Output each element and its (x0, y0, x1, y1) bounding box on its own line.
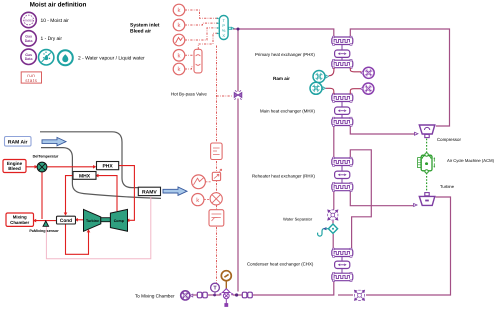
svg-text:Ram air: Ram air (273, 76, 290, 81)
svg-text:1 - Dry air: 1 - Dry air (41, 36, 63, 42)
svg-text:Compressor: Compressor (437, 137, 461, 142)
svg-text:Condenser heat exchanger (CHX): Condenser heat exchanger (CHX) (247, 261, 314, 266)
svg-text:MHX: MHX (79, 174, 91, 180)
svg-text:Bleed air: Bleed air (130, 29, 151, 35)
svg-text:Bleed: Bleed (8, 166, 21, 171)
svg-text:Comp: Comp (114, 219, 125, 223)
svg-text:Air Cycle Machine (ACM): Air Cycle Machine (ACM) (447, 158, 495, 163)
svg-text:Turbine: Turbine (440, 184, 455, 189)
svg-text:To Mixing Chamber: To Mixing Chamber (135, 293, 175, 298)
svg-text:DelTemperatur: DelTemperatur (33, 154, 59, 158)
svg-text:Data: Data (25, 39, 34, 43)
svg-text:PHX: PHX (102, 164, 113, 170)
svg-text:Hot By-pass Valve: Hot By-pass Valve (171, 91, 207, 96)
svg-text:Main heat exchanger (MHX): Main heat exchanger (MHX) (260, 108, 315, 113)
svg-text:Moist air definition: Moist air definition (30, 2, 87, 9)
svg-text:RAM Air: RAM Air (8, 140, 28, 146)
svg-text:moist: moist (25, 19, 33, 23)
svg-text:2 - Water vapour / Liquid wat: 2 - Water vapour / Liquid water (78, 55, 145, 61)
svg-text:X: X (222, 33, 225, 38)
svg-text:Mixing: Mixing (13, 215, 27, 220)
svg-text:Cond: Cond (60, 218, 72, 224)
svg-text:Data: Data (25, 57, 34, 61)
svg-text:stats: stats (25, 78, 37, 83)
svg-text:Reheater heat exchanger (RHX): Reheater heat exchanger (RHX) (252, 174, 316, 179)
svg-text:Primary heat exchanger (PHX): Primary heat exchanger (PHX) (255, 52, 315, 57)
svg-text:Chamber: Chamber (10, 220, 29, 225)
svg-text:Water Separator: Water Separator (283, 217, 313, 222)
svg-text:PaMixing sensor: PaMixing sensor (29, 229, 59, 233)
svg-text:Turbine: Turbine (86, 219, 99, 223)
svg-text:RAMV: RAMV (142, 190, 157, 196)
svg-text:10 - Moist air: 10 - Moist air (41, 18, 70, 24)
